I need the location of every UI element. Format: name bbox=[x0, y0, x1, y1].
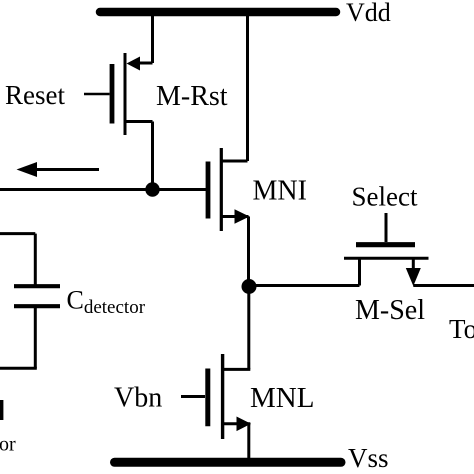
wire Vdd to MNI drain bbox=[246, 12, 249, 161]
svg-text:Reset: Reset bbox=[5, 80, 65, 110]
transistor M-Sel left terminal bbox=[358, 258, 361, 285]
wire capacitor top from left edge bbox=[0, 232, 35, 235]
wire capacitor bottom to left edge bbox=[0, 367, 37, 370]
transistor MNL source lead bbox=[223, 422, 250, 425]
svg-text:M-Rst: M-Rst bbox=[156, 81, 228, 112]
capacitor Cdetector bottom plate bbox=[14, 304, 60, 308]
power rail Vss bbox=[115, 458, 342, 467]
transistor M-Rst drain lead bbox=[137, 62, 153, 65]
svg-text:MNL: MNL bbox=[250, 382, 314, 414]
transistor MNL drain lead bbox=[223, 368, 250, 371]
wire input node to MNI gate bbox=[0, 188, 206, 191]
junction node A bbox=[145, 182, 159, 196]
transistor MNI drain lead bbox=[222, 160, 248, 163]
transistor MNL gate bar bbox=[205, 369, 210, 427]
transistor MNL gate lead bbox=[181, 395, 205, 398]
wire M-Sel output to right edge bbox=[413, 284, 474, 287]
transistor MNI gate bar bbox=[206, 162, 211, 219]
transistor M-Rst source lead bbox=[126, 120, 153, 123]
svg-text:Vdd: Vdd bbox=[346, 0, 391, 27]
signal arrow pointing left bbox=[35, 168, 99, 171]
transistor MNI channel bbox=[220, 148, 223, 231]
svg-text:Select: Select bbox=[352, 182, 418, 212]
transistor MNL source arrow bbox=[237, 417, 252, 432]
wire M-Rst source down to node bbox=[151, 122, 154, 190]
svg-text:or: or bbox=[0, 434, 16, 456]
junction node B bbox=[242, 279, 257, 294]
wire MNL source down to Vss bbox=[247, 424, 250, 460]
svg-text:M-Sel: M-Sel bbox=[355, 295, 425, 326]
wire node B down to MNL drain bbox=[247, 287, 250, 370]
transistor MNI source arrow bbox=[235, 209, 250, 224]
power rail Vdd bbox=[100, 8, 336, 17]
wire MNI source down to node B bbox=[247, 217, 250, 287]
svg-text:Vbn: Vbn bbox=[114, 383, 162, 414]
cut-off element at left edge bbox=[0, 400, 3, 420]
transistor M-Rst gate lead bbox=[84, 93, 110, 96]
transistor MNI source lead bbox=[222, 215, 249, 218]
transistor M-Sel right terminal bbox=[412, 258, 415, 270]
transistor M-Sel arrow down bbox=[406, 268, 421, 286]
svg-text:MNI: MNI bbox=[253, 176, 307, 207]
transistor M-Rst channel bbox=[124, 53, 127, 135]
wire node B to M-Sel left terminal bbox=[249, 284, 360, 287]
transistor M-Sel gate lead bbox=[385, 213, 388, 242]
transistor M-Sel gate bar bbox=[356, 242, 415, 247]
svg-text:Cdetector: Cdetector bbox=[67, 286, 146, 319]
transistor M-Rst drain arrow bbox=[127, 57, 141, 71]
svg-text:Vss: Vss bbox=[348, 443, 389, 473]
wire Vdd to M-Rst drain bbox=[151, 12, 154, 63]
transistor M-Rst gate bar bbox=[110, 64, 115, 124]
transistor M-Sel channel bbox=[344, 257, 429, 260]
capacitor Cdetector top plate bbox=[14, 284, 60, 288]
transistor MNL channel bbox=[221, 354, 224, 439]
wire capacitor bottom plate down bbox=[34, 306, 37, 368]
svg-text:To: To bbox=[449, 314, 474, 344]
wire down to capacitor top plate bbox=[34, 234, 37, 286]
